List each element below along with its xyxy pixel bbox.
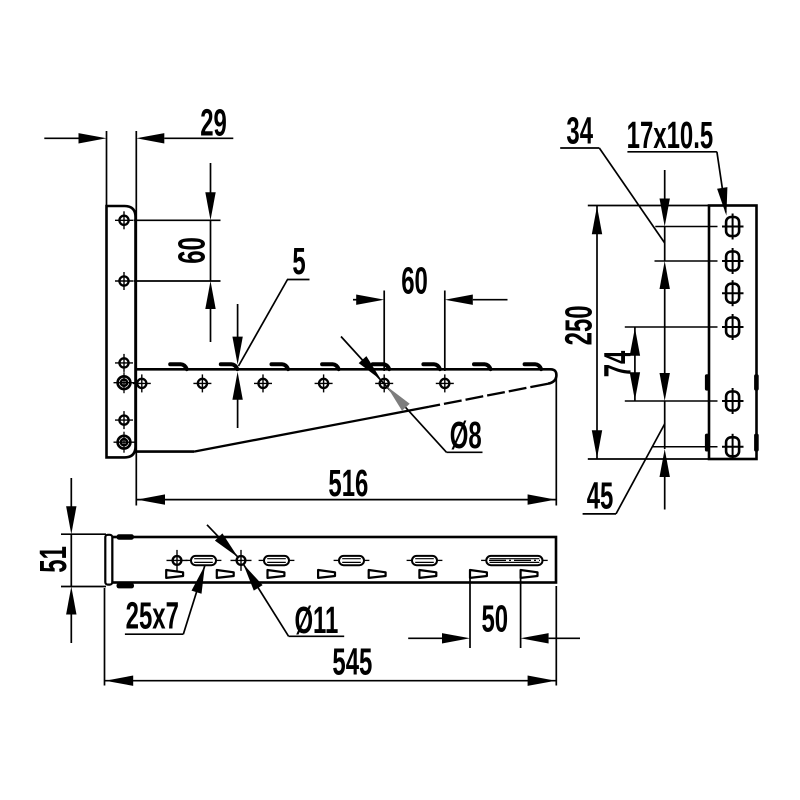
wall plate strip (top view): [105, 535, 112, 585]
dim 60v extension top: [134, 219, 221, 221]
dim 45 arrow top: [660, 373, 670, 401]
dim 17x10.5 text: [627, 113, 714, 156]
plate slot 17x10.5 #4 (front view): [625, 314, 744, 340]
bar hole #2 (top view): [231, 550, 252, 571]
svg-text:516: 516: [328, 461, 368, 504]
dim 34 leader: [599, 148, 664, 243]
svg-text:5: 5: [292, 239, 305, 282]
dim 25x7 underline: [125, 633, 183, 635]
dim 51 extension top: [61, 533, 106, 535]
dim 5 tail top: [237, 304, 239, 338]
arm hole #1: [133, 374, 151, 392]
dim 60h text: [401, 259, 428, 302]
dim 60h arrow left: [356, 295, 384, 305]
dim 545 extension right: [555, 586, 557, 686]
dim 250 extension bottom: [588, 458, 709, 460]
arm tab #5: [373, 364, 390, 369]
svg-text:25x7: 25x7: [126, 594, 179, 637]
dim 516 line: [136, 499, 556, 501]
dim 51 tail bottom: [70, 614, 72, 643]
arm tab #6: [423, 364, 440, 369]
dim 50 arrow right: [521, 633, 549, 643]
plate slot 17x10.5 #5 (front view): [625, 388, 744, 414]
dim 34 underline: [560, 147, 599, 149]
arm hole #4: [315, 374, 333, 392]
svg-text:51: 51: [31, 546, 74, 573]
dim 60v text: [170, 237, 213, 264]
arm tab #7: [474, 364, 491, 369]
dim 74 arrow top: [630, 328, 640, 356]
dim Ø8 leader line: [341, 337, 447, 453]
dim 50 extension right: [520, 574, 522, 649]
bar slot 25x7 #1 (top view): [186, 556, 222, 565]
plate hole small #4 (side view): [115, 411, 133, 429]
dim 5 arrow top: [232, 337, 242, 365]
dim 250 text: [557, 305, 600, 345]
bar slot 25x7 #4 (top view): [407, 556, 443, 565]
dim 45 tail top: [664, 342, 666, 373]
dim Ø8 arrow upper (black): [359, 356, 382, 380]
arm tab #4: [322, 364, 339, 369]
arm hole #2: [193, 374, 211, 392]
plate slot 17x10.5 #2 (front view): [655, 248, 744, 274]
arm bottom diagonal (dashed by watermark): [429, 384, 548, 407]
dim 60v arrow top: [205, 192, 215, 220]
arm top edge: [136, 368, 551, 371]
dim 34 tail top: [664, 170, 666, 199]
dim 250 extension top: [588, 205, 709, 207]
dim 60v arrow bottom: [205, 281, 215, 309]
dim 50 extension left: [469, 574, 471, 649]
dim 45 line: [664, 401, 666, 449]
dim 17x10.5 arrow: [717, 187, 727, 216]
arm bottom horizontal edge: [136, 450, 195, 453]
plate slot 17x10.5 #3 (front view): [722, 280, 744, 306]
svg-text:74: 74: [596, 350, 639, 377]
dim 17x10.5 leader: [717, 152, 726, 213]
dim 29 arrow right: [136, 133, 164, 143]
dim 5 leader: [239, 280, 288, 367]
dim Ø8 underline: [447, 451, 483, 453]
dim 545 extension left: [104, 588, 106, 686]
dim Ø11 upper arrow: [215, 533, 238, 557]
dim 250 arrow top: [592, 206, 602, 234]
bar slot 25x7 #2 (top view): [259, 556, 295, 565]
dim 51 extension bottom: [61, 586, 106, 588]
dim 250 line: [596, 206, 598, 460]
svg-text:Ø11: Ø11: [294, 598, 338, 641]
flange mark lower-left (front view): [705, 434, 710, 452]
dim 5 arrow bottom: [232, 372, 242, 400]
flange mark lower-right (front view): [754, 434, 759, 452]
dim 51 arrow bottom: [66, 587, 76, 615]
arm tip rounded end: [548, 369, 556, 383]
dim 545 arrow left: [105, 676, 133, 686]
plate slot 17x10.5 #1 (front view): [655, 214, 743, 240]
svg-text:29: 29: [200, 101, 227, 144]
dim 250 arrow bottom: [592, 430, 602, 458]
wall plate outline (front view): [709, 206, 757, 460]
dim 51 arrow top: [66, 506, 76, 534]
dim 29 text: [200, 101, 227, 144]
bar lance tab #7 (top view): [470, 570, 487, 578]
dim 545 line: [105, 680, 557, 682]
dim 5 tail bottom: [237, 399, 239, 428]
dim 34 text: [566, 109, 593, 152]
bar slot 25x7 #3 (top view): [334, 556, 370, 565]
dim 60h extension left: [383, 291, 385, 372]
dim 5 text: [292, 239, 305, 282]
dim 51 line: [70, 534, 72, 586]
dim 60v line: [210, 220, 212, 281]
dim Ø11 arrow: [243, 564, 262, 591]
svg-text:34: 34: [566, 109, 593, 152]
bar lance tab #1 (top view): [166, 570, 183, 578]
dim Ø11 text: [294, 598, 338, 641]
dim 5 underline: [287, 279, 310, 281]
dim 50 tail left: [408, 637, 442, 639]
dim 50 arrow left: [442, 633, 470, 643]
dim 74 line: [634, 327, 636, 401]
plate hole small #2 (side view): [115, 272, 133, 290]
dim 60h tail right: [473, 299, 508, 301]
dim 45 underline: [583, 513, 616, 515]
dim 25x7 arrow: [192, 565, 205, 593]
flange mark upper-right (front view): [754, 374, 759, 390]
dim 60h arrow right: [445, 295, 473, 305]
plate hole large #2 (side view): [114, 432, 135, 453]
dim 29 tail right: [164, 137, 233, 139]
dim 545 text: [332, 640, 372, 683]
svg-text:Ø8: Ø8: [450, 413, 482, 456]
dim 51 tail top: [70, 478, 72, 507]
bar outline (top view): [112, 537, 556, 583]
arm hole #5: [375, 374, 393, 392]
dim 34 line: [664, 227, 666, 262]
svg-text:17x10.5: 17x10.5: [627, 113, 714, 156]
wall plate outline (side view): [107, 206, 136, 457]
dim 29 tail left: [44, 137, 80, 139]
dim Ø8 text: [450, 413, 482, 456]
bar lance tab #6 (top view): [419, 570, 436, 578]
svg-text:60: 60: [401, 259, 428, 302]
arm tab #3: [272, 364, 289, 369]
arm hole #3: [254, 374, 272, 392]
dim 29 extension line left: [106, 131, 108, 206]
dim 545 arrow right: [528, 676, 556, 686]
bar long slot (top view): [481, 556, 548, 565]
bar lance tab #4 (top view): [318, 570, 335, 578]
dim 29 arrow left: [79, 133, 107, 143]
arm tab #8: [525, 364, 542, 369]
dim Ø11 underline: [289, 635, 345, 637]
plate flange mark top (top view): [117, 534, 135, 539]
dim 60h extension right: [444, 291, 446, 372]
dim 60v tail top: [210, 163, 212, 193]
dim 25x7 text: [126, 594, 179, 637]
arm tab #2: [221, 364, 238, 369]
dim 516 arrow left: [137, 494, 165, 504]
dim 60v tail bottom: [210, 309, 212, 342]
dim 34 arrow bottom: [660, 261, 670, 289]
bar lance tab #2 (top view): [217, 570, 234, 578]
dim 45 leader: [616, 424, 665, 514]
plate hole small #1 (side view): [115, 211, 133, 229]
svg-text:50: 50: [481, 597, 508, 640]
dim 29 extension line right / 516 left extension: [135, 131, 137, 506]
dim 50 tail right: [549, 637, 580, 639]
dim Ø11 leader: [243, 564, 288, 636]
plate hole small #3 (side view): [115, 354, 133, 372]
svg-text:250: 250: [557, 305, 600, 345]
bar lance tab #5 (top view): [369, 570, 386, 578]
bar lance tab #3 (top view): [268, 570, 285, 578]
dim 60h tail left: [353, 299, 357, 301]
arm hole #6: [436, 374, 454, 392]
dim 516 text: [328, 461, 368, 504]
dim 25x7 leader: [183, 565, 205, 634]
dim 74 text: [596, 350, 639, 377]
dim 34 arrow top: [660, 199, 670, 227]
plate slot 17x10.5 #6 (front view): [653, 434, 744, 460]
dim 516 extension right: [555, 373, 557, 506]
dim 50 text: [481, 597, 508, 640]
dim 17x10.5 underline: [627, 151, 717, 153]
dim 45 tail bottom: [664, 477, 666, 510]
dim Ø11 upper leader: [207, 525, 238, 557]
dim 45 text: [587, 474, 614, 517]
dim Ø8 arrow lower (gray, under watermark): [387, 387, 410, 411]
plate hole large #1 (side view): [114, 372, 135, 393]
dim 516 arrow right: [528, 494, 556, 504]
dim 51 text: [31, 546, 74, 573]
dim 60v extension bottom: [134, 280, 221, 282]
svg-text:45: 45: [587, 474, 614, 517]
bar lance tab #8 (top view): [521, 570, 538, 578]
dim 45 arrow bottom: [660, 449, 670, 477]
flange mark upper-left (front view): [705, 374, 710, 390]
dim 34 tail bottom: [664, 289, 666, 342]
bar hole #1 (top view): [167, 550, 188, 571]
svg-text:545: 545: [332, 640, 372, 683]
arm bottom diagonal solid part: [194, 407, 429, 452]
plate flange mark bottom (top view): [117, 583, 135, 588]
arm tab #1: [170, 364, 187, 369]
svg-text:60: 60: [170, 237, 213, 264]
dim 74 arrow bottom: [630, 372, 640, 400]
